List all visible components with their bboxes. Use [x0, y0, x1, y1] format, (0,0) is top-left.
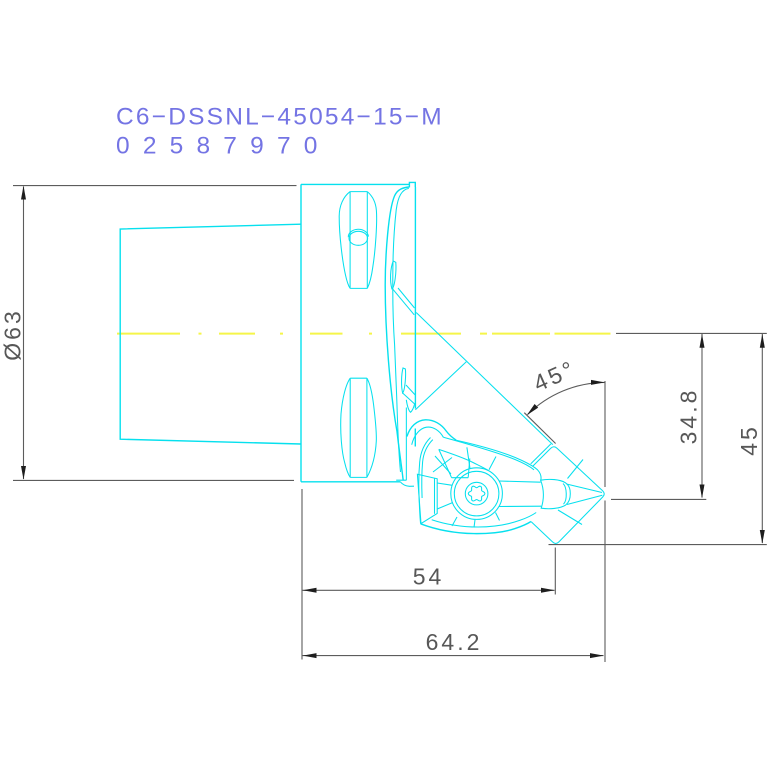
dimension 45: arrow up	[760, 334, 765, 348]
svg-text:54: 54	[413, 564, 445, 590]
mouth line lower	[499, 505, 541, 507]
insert diamond visible outline	[531, 447, 604, 544]
neck inner vertical	[396, 408, 406, 481]
clamp wedge quad	[417, 474, 437, 523]
clamp dome inner	[412, 427, 444, 445]
dimension 64.2: dimension line	[303, 655, 604, 657]
dimension O63: extension line top	[13, 185, 297, 187]
mouth line upper	[499, 481, 541, 482]
head silhouette outer curve	[385, 187, 409, 480]
wedge connector lower	[437, 503, 453, 510]
flange bottom step	[400, 482, 414, 487]
dimension 45deg: arrow on edge	[527, 404, 538, 415]
top slot screw ellipse	[349, 231, 368, 245]
dimension O63: dimension line	[23, 187, 25, 480]
dimension 45: dimension line	[761, 334, 763, 543]
top slot left arc	[339, 192, 350, 289]
dimension 34.8: dimension line	[701, 334, 703, 498]
top slot band left vertical	[349, 192, 351, 289]
bottom slot right arc	[367, 378, 376, 477]
svg-text:64.2: 64.2	[426, 629, 483, 655]
clamp bottom band outer	[421, 522, 531, 534]
dimension 54: arrow right	[541, 588, 555, 593]
bottom slot top edge	[350, 377, 367, 379]
head silhouette inner curve	[393, 188, 409, 472]
dimension 64.2: arrow right	[590, 653, 604, 658]
centerline (yellow dashed)	[117, 333, 611, 335]
svg-text:C6−DSSNL−45054−15−M: C6−DSSNL−45054−15−M	[116, 104, 444, 131]
dimension O63: arrow down	[21, 466, 26, 480]
clamp left boundary	[419, 438, 431, 524]
bottom slot band right vertical	[366, 378, 368, 477]
svg-text:Ø63: Ø63	[0, 308, 26, 360]
beak line lower	[567, 495, 602, 504]
band-hub sweep	[439, 449, 488, 470]
flange bottom edge	[301, 481, 400, 483]
dimension 45deg: arc	[528, 382, 605, 414]
dimension 54: left extension line (shared with 64.2)	[301, 489, 303, 660]
dimension 45: arrow down	[760, 530, 765, 544]
top slot screw rim arc	[348, 229, 368, 237]
dimension 45: bottom extension line	[549, 544, 767, 546]
dimension 64.2: arrow left	[303, 653, 317, 658]
dome-hub connector 1	[433, 456, 452, 474]
dimension 54: dimension line	[303, 589, 555, 591]
main 45deg diagonal edge	[416, 313, 553, 445]
clamp left boundary inner	[422, 440, 433, 498]
torx star	[468, 486, 485, 501]
dimension 64.2: right extension line (shared with 45deg, gap at insert tip)	[604, 381, 606, 662]
bottom slot bottom edge	[350, 476, 367, 478]
lower wedge lines	[403, 385, 416, 405]
dimension O63: extension line bottom	[13, 479, 294, 481]
dimension 34.8: arrow down	[700, 485, 705, 499]
bottom slot left arc	[341, 378, 350, 477]
screw head outer circle	[451, 468, 503, 520]
dimension 45deg: ray along 45 edge	[524, 413, 555, 444]
dimension 34.8: top extension line (shared with 45)	[616, 332, 767, 334]
band-hub connector	[489, 457, 496, 470]
top slot band right vertical	[366, 192, 368, 289]
hub lower connector 3	[474, 520, 475, 528]
screw head ring	[454, 471, 499, 516]
top slot bottom edge	[350, 287, 367, 289]
side slot lens (mid)	[391, 261, 396, 289]
clamp nose	[541, 479, 571, 508]
wedge inner edge	[434, 478, 436, 514]
dimension 45deg: arrow at vertical	[591, 380, 605, 385]
clamp dome outer	[407, 420, 456, 440]
shank (tapered)	[120, 224, 301, 444]
beak line upper	[567, 484, 603, 493]
clamp boss quad	[439, 449, 470, 477]
clamp top band upper	[456, 440, 541, 480]
top slot top edge	[350, 191, 367, 193]
beak wrap lower	[558, 510, 582, 525]
screw recess circle	[465, 482, 488, 505]
hub lower connector 1	[452, 517, 457, 526]
lower slot lens (edge-on)	[402, 368, 406, 393]
v-notch saddle	[406, 400, 415, 413]
svg-text:02587970: 02587970	[116, 133, 331, 160]
beak wrap upper	[568, 460, 584, 479]
clamp top band lower	[443, 437, 534, 470]
clamp nose inner arc	[563, 484, 566, 505]
insert top-left edge (thick)	[531, 444, 551, 464]
bottom slot band left vertical	[349, 378, 351, 477]
dimension 34.8: bottom extension line	[611, 498, 706, 500]
flange top tab	[409, 182, 415, 187]
top slot right arc	[367, 192, 376, 289]
side slot wedge lines	[392, 288, 414, 315]
hub lower connector 2	[496, 513, 500, 521]
flange left edge	[300, 184, 302, 481]
inner diagonal	[415, 362, 466, 410]
dimension O63: arrow up	[21, 186, 26, 200]
dimension 54: arrow left	[303, 588, 317, 593]
flange top edge	[301, 183, 409, 185]
svg-text:34.8: 34.8	[676, 388, 702, 445]
svg-text:45: 45	[736, 424, 762, 456]
clamp bottom band inner	[432, 513, 537, 528]
dome-hub connector 2	[467, 447, 470, 468]
dimension 54: right extension line	[554, 548, 556, 595]
wedge connector upper	[437, 483, 452, 485]
dimension 34.8: arrow up	[700, 334, 705, 348]
flange right edge	[414, 187, 416, 447]
